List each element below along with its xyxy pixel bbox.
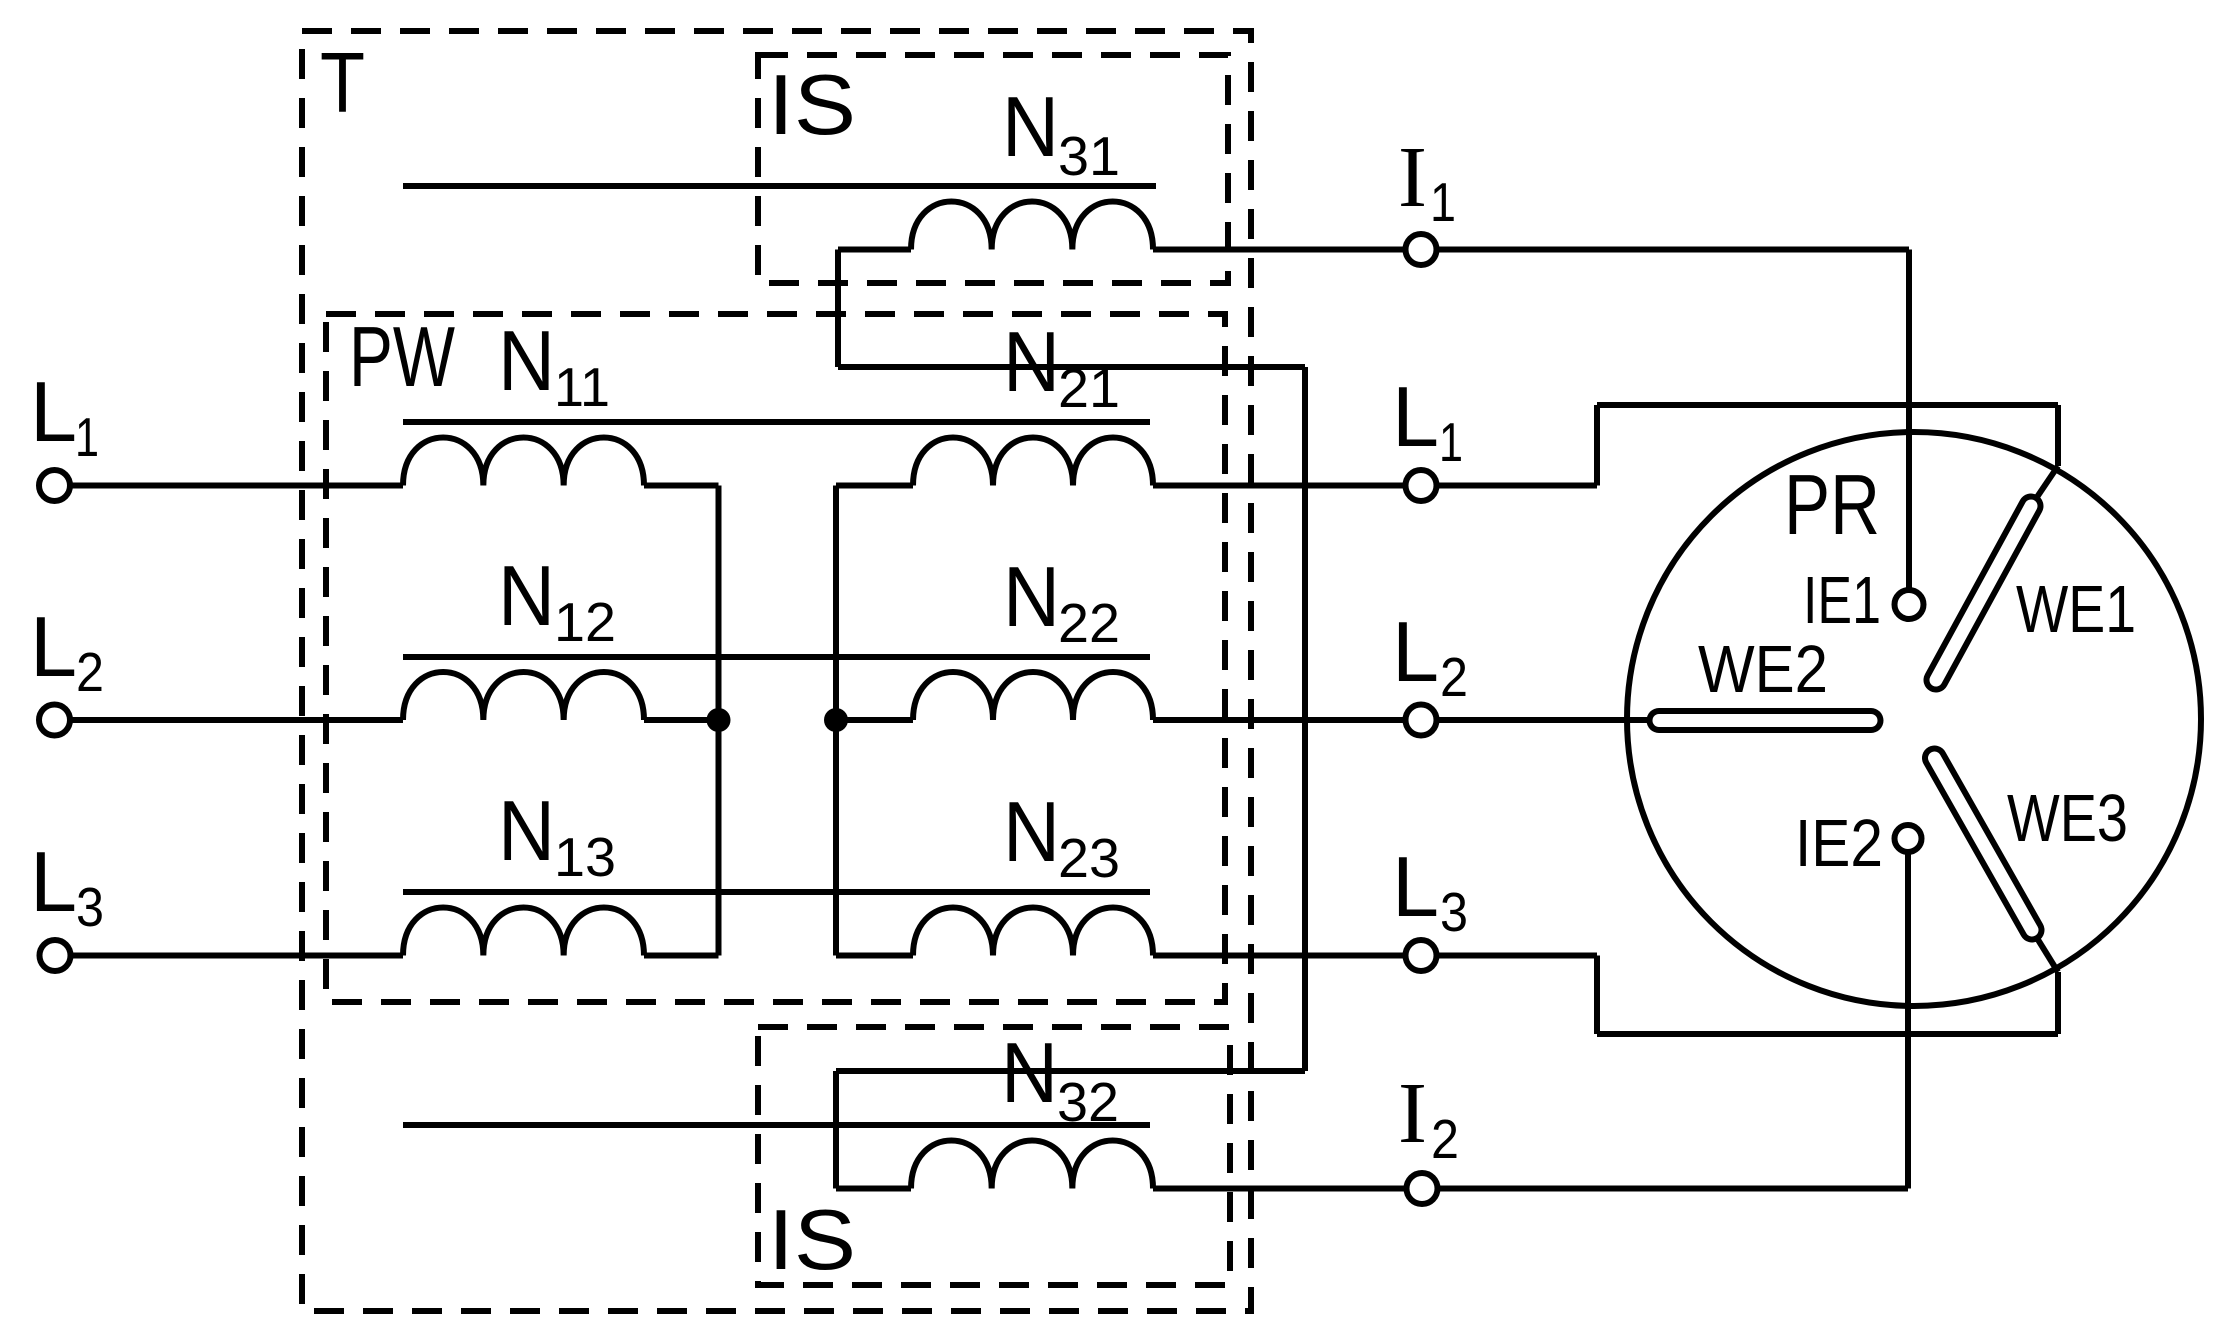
svg-text:L: L (30, 835, 77, 930)
svg-text:2: 2 (1431, 1108, 1459, 1170)
svg-text:IE2: IE2 (1795, 806, 1883, 881)
svg-text:22: 22 (1058, 592, 1120, 654)
svg-text:I: I (1398, 128, 1427, 225)
svg-text:32: 32 (1057, 1071, 1119, 1133)
svg-text:IE1: IE1 (1803, 563, 1881, 638)
svg-text:L: L (1392, 605, 1439, 700)
svg-text:31: 31 (1058, 125, 1120, 187)
svg-text:N: N (1003, 550, 1060, 645)
svg-text:2: 2 (1440, 646, 1468, 708)
svg-text:IS: IS (768, 1193, 856, 1288)
svg-text:23: 23 (1058, 827, 1120, 889)
svg-text:1: 1 (1439, 411, 1463, 473)
svg-text:L: L (1392, 370, 1439, 465)
svg-text:12: 12 (554, 591, 616, 653)
svg-text:1: 1 (75, 406, 99, 468)
svg-text:21: 21 (1058, 357, 1120, 419)
svg-text:N: N (498, 549, 555, 644)
svg-text:2: 2 (76, 641, 104, 703)
svg-text:3: 3 (76, 876, 104, 938)
svg-text:N: N (1003, 785, 1060, 880)
svg-text:L: L (1392, 840, 1439, 935)
svg-text:PW: PW (349, 310, 455, 405)
svg-text:IS: IS (768, 58, 856, 153)
svg-text:I: I (1398, 1064, 1427, 1161)
svg-text:WE2: WE2 (1698, 632, 1828, 707)
svg-text:N: N (1002, 80, 1059, 175)
svg-text:PR: PR (1784, 458, 1880, 553)
svg-text:N: N (1003, 315, 1060, 410)
svg-text:WE3: WE3 (2007, 781, 2128, 856)
svg-text:13: 13 (554, 826, 616, 888)
svg-text:3: 3 (1440, 881, 1468, 943)
svg-text:N: N (498, 314, 555, 409)
svg-text:T: T (320, 36, 365, 131)
svg-text:N: N (498, 784, 555, 879)
svg-text:L: L (30, 600, 77, 695)
svg-text:1: 1 (1430, 171, 1456, 233)
svg-text:11: 11 (554, 356, 610, 418)
svg-text:WE1: WE1 (2016, 572, 2136, 647)
svg-text:L: L (30, 365, 77, 460)
svg-text:N: N (1001, 1026, 1058, 1121)
